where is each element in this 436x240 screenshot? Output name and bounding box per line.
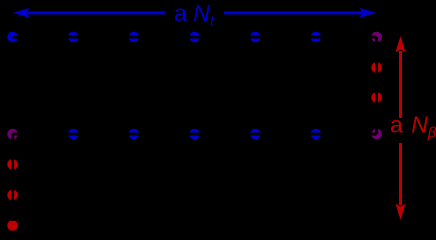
node row2 corner left (purple) xyxy=(7,129,18,140)
left column red sites xyxy=(7,159,18,231)
wire row 2 xyxy=(13,133,377,136)
node left-col site1 xyxy=(7,159,18,170)
node left-col site2 xyxy=(7,190,18,201)
wire: top segment of right arrow xyxy=(399,51,402,118)
node row2 corner right (purple) xyxy=(371,129,382,140)
node row1 site4 xyxy=(189,32,200,43)
node row2 site2 xyxy=(68,129,79,140)
node right-col site2 xyxy=(371,92,382,103)
node row2 site6 xyxy=(311,129,322,140)
svg-text:a Nt: a Nt xyxy=(174,0,215,30)
node row1 corner (purple) xyxy=(371,32,382,43)
black lattice wires drawn over sites xyxy=(13,37,377,221)
node row1 site5 xyxy=(250,32,261,43)
node row2 site5 xyxy=(250,129,261,140)
wire: left segment of top arrow xyxy=(26,11,165,14)
node row1 site6 xyxy=(311,32,322,43)
horizontal dimension arrow a N_t (blue, double-headed) xyxy=(13,8,376,18)
vertical dimension arrow a N_beta (red, double-headed) xyxy=(396,36,406,220)
node row1 site2 xyxy=(68,32,79,43)
wire row 1 xyxy=(13,36,377,39)
arrowhead top xyxy=(396,36,406,53)
node left-col site3 xyxy=(7,220,18,231)
node row1 site1 xyxy=(7,32,18,43)
wire: bottom segment of right arrow xyxy=(399,143,402,205)
node row2 site3 xyxy=(129,129,140,140)
arrowhead left xyxy=(13,8,30,18)
node right-col site1 xyxy=(371,62,382,73)
wire left column xyxy=(11,134,14,221)
row 1 blue sites xyxy=(7,32,321,43)
node row2 site4 xyxy=(189,129,200,140)
right column red sites xyxy=(371,62,382,103)
arrowhead right xyxy=(360,8,377,18)
node row1 site3 xyxy=(129,32,140,43)
wire right column xyxy=(375,37,378,134)
wire: right segment of top arrow xyxy=(224,11,363,14)
arrowhead bottom xyxy=(396,204,406,221)
